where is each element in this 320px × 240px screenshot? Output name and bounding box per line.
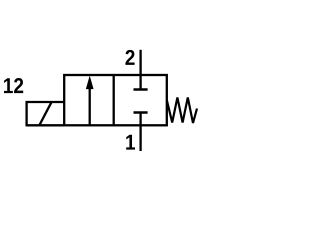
- return spring: [167, 98, 197, 124]
- solenoid box top edge: [27, 101, 65, 103]
- solenoid box left edge: [25, 101, 27, 127]
- blocked port top: bar: [134, 88, 148, 91]
- valve body outer rectangle: [64, 75, 167, 125]
- flow path arrow shaft: [89, 86, 91, 125]
- label 2: [125, 50, 134, 65]
- solenoid box bottom edge: [27, 124, 65, 126]
- blocked port bottom: stem: [139, 113, 141, 126]
- port 2 connection line: [139, 50, 141, 75]
- divider between valve positions: [113, 75, 115, 125]
- flow path arrowhead: [86, 77, 93, 89]
- port 1 connection line: [139, 125, 141, 151]
- label 12: [4, 78, 23, 93]
- label 1: [126, 135, 135, 150]
- blocked port bottom: bar: [134, 111, 148, 114]
- solenoid diagonal: [40, 102, 52, 125]
- blocked port top: stem: [139, 75, 141, 90]
